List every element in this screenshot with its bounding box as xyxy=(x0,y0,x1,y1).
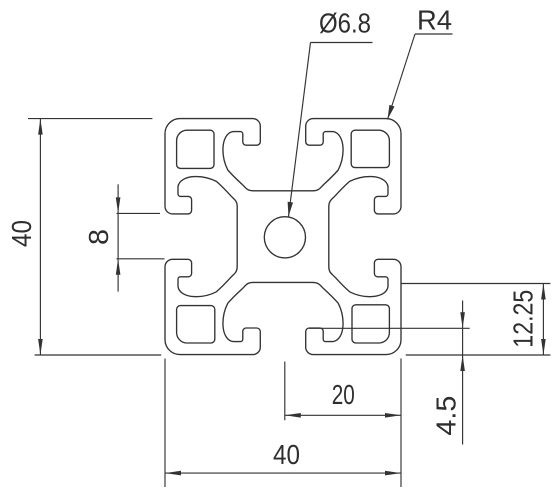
bottom 40 / 20 shared extension line right xyxy=(400,359,402,488)
svg-text:12.25: 12.25 xyxy=(508,290,539,348)
bottom 40 dim line xyxy=(165,472,401,474)
svg-text:8: 8 xyxy=(83,229,114,245)
8 arrow up (outside below) xyxy=(116,259,121,275)
svg-text:Ø6.8: Ø6.8 xyxy=(319,8,371,39)
svg-text:4.5: 4.5 xyxy=(431,396,462,436)
bottom-left corner square hole xyxy=(177,306,215,343)
4.5 extension line middle (lip underside) xyxy=(309,327,470,329)
R4 leader arrowhead xyxy=(388,105,395,120)
8 dim line xyxy=(117,184,119,291)
bottom 40 arrow left xyxy=(165,471,181,476)
svg-text:20: 20 xyxy=(332,379,355,410)
Ø6.8 leader arrowhead xyxy=(288,202,293,217)
20 extension line left (slot center) xyxy=(284,362,286,421)
svg-text:40: 40 xyxy=(6,220,37,247)
8 dim extension line bottom xyxy=(117,258,165,260)
left 40 dimension line xyxy=(39,119,41,355)
8 dim extension line top xyxy=(117,212,161,214)
left 40 dimension extension line top xyxy=(28,118,152,120)
4.5 dim line xyxy=(462,301,464,445)
bottom-right corner square hole xyxy=(352,305,389,343)
20 dim line xyxy=(285,414,401,416)
12.25 arrow up xyxy=(541,284,546,300)
20 arrow left xyxy=(285,413,301,418)
Ø6.8 leader line xyxy=(289,43,311,217)
left 40 dimension extension line bottom xyxy=(35,354,162,356)
12.25 extension line top xyxy=(401,283,550,285)
svg-text:40: 40 xyxy=(273,439,300,470)
8 arrow down (outside above) xyxy=(116,197,121,213)
top-left corner square hole xyxy=(177,130,214,168)
20 arrow right xyxy=(385,413,401,418)
12.25 arrow down xyxy=(541,339,546,355)
svg-text:R4: R4 xyxy=(417,5,452,36)
R4 label shoulder line xyxy=(415,33,453,35)
center hole Ø6.8 xyxy=(264,217,305,258)
bottom 40 arrow right xyxy=(385,471,401,476)
left 40 arrow down xyxy=(38,339,43,355)
Ø6.8 label shoulder line xyxy=(311,42,373,44)
4.5 arrow up (outside below) xyxy=(460,355,465,371)
R4 leader line xyxy=(388,34,416,120)
bottom 40 extension line left xyxy=(164,359,166,488)
top-right corner square hole xyxy=(351,130,389,167)
4.5 / 12.25 shared bottom extension line xyxy=(406,354,551,356)
4.5 arrow down (outside above) xyxy=(460,312,465,328)
left 40 arrow up xyxy=(38,119,43,135)
12.25 dim line xyxy=(542,284,544,356)
profile outer boundary with four T-slots xyxy=(165,119,401,355)
